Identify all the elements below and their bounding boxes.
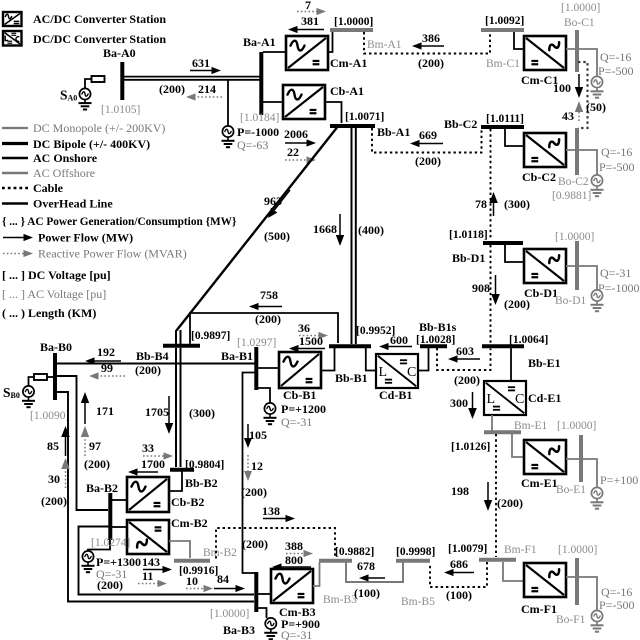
ground of Ba-A1 source — [227, 137, 229, 141]
svg-text:Cm-E1: Cm-E1 — [521, 476, 558, 490]
converter Cm-A1 — [286, 36, 328, 70]
svg-text:1668: 1668 — [313, 222, 337, 236]
svg-text:(200): (200) — [159, 82, 185, 96]
svg-text:192: 192 — [97, 345, 115, 359]
converter Cb-C2 — [524, 133, 566, 167]
bus Bo-F1 (offshore) — [575, 558, 579, 605]
wire Cb-A1 to Bb-A1 — [325, 102, 342, 123]
svg-text:Q=-16: Q=-16 — [601, 145, 632, 159]
AC line Bm-B3 to Bm-B5 (offshore) — [346, 562, 403, 582]
svg-text:908: 908 — [472, 281, 490, 295]
svg-text:Bo-C1: Bo-C1 — [564, 17, 595, 29]
AC line Ba-B0 to Ba-B2 — [57, 376, 108, 510]
svg-text:[1.0064]: [1.0064] — [509, 334, 548, 346]
svg-text:(200): (200) — [135, 363, 161, 377]
svg-text:678: 678 — [357, 559, 375, 573]
legend line DC Bipole — [2, 142, 28, 145]
svg-text:[1.0000]: [1.0000] — [334, 16, 373, 28]
wire Ba-A1 to Cm-A1 — [263, 51, 286, 53]
svg-text:7: 7 — [305, 0, 311, 12]
svg-text:( ... ) Length (KM): ( ... ) Length (KM) — [2, 306, 96, 320]
svg-text:105: 105 — [249, 428, 267, 442]
svg-text:Cb-B2: Cb-B2 — [171, 495, 204, 509]
svg-text:P=-1000: P=-1000 — [237, 125, 279, 139]
source at Ba-A1 — [222, 126, 233, 137]
svg-text:Bo-E1: Bo-E1 — [556, 484, 586, 496]
bus Ba-B2 — [108, 493, 112, 540]
cable Bm-E1 to Bm-F1 (dotted) — [495, 434, 497, 557]
bus Bm-F1 (offshore) — [479, 558, 516, 562]
svg-text:Bb-E1: Bb-E1 — [528, 356, 561, 370]
svg-text:11: 11 — [142, 569, 153, 583]
svg-text:DC Bipole (+/- 400KV): DC Bipole (+/- 400KV) — [33, 137, 150, 151]
ground at Bo-C2 source — [596, 186, 598, 190]
DC bipole diagonal Bb-B4 to Bb-A1 — [177, 128, 338, 331]
svg-text:(200): (200) — [97, 578, 123, 592]
svg-text:100: 100 — [553, 81, 571, 95]
svg-text:(200): (200) — [418, 56, 444, 70]
legend line Cable — [2, 187, 28, 190]
svg-text:669: 669 — [419, 128, 437, 142]
svg-text:L: L — [487, 392, 496, 407]
dc/dc converter Cd-E1 — [484, 381, 526, 415]
ground of SB0 — [28, 397, 30, 401]
bus Bm-A1 (offshore) — [330, 28, 373, 32]
dc/dc converter Cd-B1 — [376, 354, 418, 388]
wire AC line Ba-A0 to Ba-A1 (double) — [124, 76, 260, 78]
svg-text:[0.9882]: [0.9882] — [335, 546, 374, 558]
svg-text:Bm-E1: Bm-E1 — [514, 420, 547, 432]
cable Bm-A1 to Bm-C1 (dotted) — [364, 32, 490, 54]
bus Bb-B1s — [420, 344, 447, 348]
svg-text:[1.0028]: [1.0028] — [416, 334, 455, 346]
svg-text:600: 600 — [390, 333, 408, 347]
wire Bb-C2 to Cb-C2 — [505, 129, 524, 146]
wire Bm-E1 to Cm-E1 — [512, 434, 524, 457]
source at Bo-C2 — [591, 175, 602, 186]
svg-text:OverHead Line: OverHead Line — [33, 197, 113, 211]
bus Bm-E1 (offshore) — [484, 430, 521, 434]
svg-text:214: 214 — [198, 82, 216, 96]
svg-text:386: 386 — [422, 31, 440, 45]
svg-text:[0.9804]: [0.9804] — [185, 459, 224, 471]
svg-text:300: 300 — [450, 396, 468, 410]
wire Bm-F1 to Cm-F1 — [503, 562, 524, 581]
svg-text:Q=-31: Q=-31 — [281, 415, 312, 429]
ground at Bo-F1 source — [596, 622, 598, 626]
wire Cd-B1 to Bb-B1s — [418, 348, 429, 371]
svg-text:Cd-E1: Cd-E1 — [528, 391, 561, 405]
DC monopole wire Bb-B4 to Bb-B1 — [190, 313, 338, 344]
svg-text:[0.9998]: [0.9998] — [396, 546, 435, 558]
DC bipole Bb-B4 up to diagonal (double line) — [175, 330, 177, 344]
converter Cm-E1 — [524, 440, 566, 474]
bus Bm-C1 (offshore) — [481, 28, 524, 32]
svg-text:Bm-B2: Bm-B2 — [203, 547, 237, 559]
svg-text:DC Monopole (+/- 200KV): DC Monopole (+/- 200KV) — [33, 121, 165, 135]
svg-text:Bm-B5: Bm-B5 — [401, 596, 435, 608]
svg-text:800: 800 — [285, 553, 303, 567]
converter Cb-A1 — [283, 85, 325, 119]
svg-text:[1.0092]: [1.0092] — [485, 15, 524, 27]
svg-text:Reactive Power Flow (MVAR): Reactive Power Flow (MVAR) — [38, 247, 187, 261]
svg-text:[ ... ] AC Voltage [pu]: [ ... ] AC Voltage [pu] — [2, 287, 106, 301]
svg-text:22: 22 — [287, 145, 299, 159]
impedance of SB0 — [34, 374, 47, 380]
wire Cm-F1 to Bo-F1 and source — [566, 577, 597, 610]
svg-text:Q=-31: Q=-31 — [600, 266, 631, 280]
wire Cb-D1 to Bo-D1 and source — [566, 266, 597, 290]
converter Cb-B1 — [279, 352, 321, 388]
wire SB0 to impedance — [29, 377, 35, 386]
source at Ba-B3 — [258, 608, 267, 618]
svg-text:603: 603 — [456, 344, 474, 358]
svg-text:[1.0118]: [1.0118] — [449, 229, 488, 241]
svg-text:99: 99 — [101, 361, 113, 375]
svg-text:Bo-F1: Bo-F1 — [556, 614, 586, 626]
legend reactive power flow arrow — [3, 253, 24, 255]
wire Bm-C1 to Cm-C1 — [514, 32, 524, 49]
source at Bo-F1 — [591, 610, 602, 621]
svg-text:36: 36 — [298, 321, 310, 335]
wire Bb-B1 to Cd-B1 — [366, 348, 376, 371]
wire Ba-B2 to Cm-B2 — [112, 526, 127, 528]
bus Bo-C1 (offshore) — [575, 30, 579, 72]
svg-text:Bm-B3: Bm-B3 — [323, 594, 357, 606]
svg-text:P=-1000: P=-1000 — [598, 281, 639, 295]
bus Ba-B0 — [53, 353, 57, 400]
AC line Ba-B2 to Ba-B3 — [79, 527, 255, 595]
source SA0 — [79, 88, 90, 99]
ground of SA0 — [84, 100, 86, 104]
bus Bb-D1 — [483, 241, 523, 245]
svg-text:[1.0090]: [1.0090] — [30, 410, 69, 422]
svg-text:[1.0126]: [1.0126] — [451, 441, 490, 453]
source at Bo-E1 — [591, 487, 602, 498]
svg-text:[0.9916]: [0.9916] — [179, 565, 218, 577]
source SB0 — [23, 386, 34, 397]
svg-text:[1.0079]: [1.0079] — [448, 543, 487, 555]
wire Cb-B2 to Bb-B2 — [169, 471, 182, 491]
bus Ba-A0 — [120, 62, 124, 100]
wire Cm-E1 to Bo-E1 and source — [566, 459, 597, 487]
svg-text:10: 10 — [186, 574, 198, 588]
svg-text:1705: 1705 — [145, 405, 169, 419]
svg-text:12: 12 — [251, 459, 263, 473]
svg-text:Bb-B1s: Bb-B1s — [419, 320, 457, 334]
wire Ba-A1 to Cb-A1 — [263, 101, 283, 103]
svg-text:(50): (50) — [586, 100, 606, 114]
svg-text:30: 30 — [48, 472, 60, 486]
wire Cm-B3 to Bm-B3 — [313, 562, 320, 586]
converter Cm-B2 — [127, 520, 169, 554]
svg-text:AC Onshore: AC Onshore — [33, 151, 98, 165]
svg-text:(200): (200) — [84, 457, 110, 471]
svg-text:143: 143 — [142, 555, 160, 569]
svg-text:Cb-C2: Cb-C2 — [522, 170, 556, 184]
svg-text:[1.0274]: [1.0274] — [91, 537, 130, 549]
wire Cd-E1 to Bm-E1 — [491, 415, 493, 431]
svg-text:84: 84 — [217, 572, 229, 586]
svg-text:Bm-C1: Bm-C1 — [486, 58, 520, 70]
wire Cb-B1 to Bb-B1 — [321, 348, 335, 371]
svg-text:686: 686 — [450, 557, 468, 571]
svg-text:97: 97 — [89, 439, 101, 453]
bus Bm-B3 (offshore) — [319, 559, 352, 563]
svg-text:138: 138 — [262, 504, 280, 518]
DC bipole Bb-A1 to Bb-B1 (double line) — [351, 128, 353, 344]
svg-text:Q=-16: Q=-16 — [600, 50, 631, 64]
svg-text:Bb-B4: Bb-B4 — [136, 349, 169, 363]
svg-text:Bb-B1: Bb-B1 — [335, 371, 368, 385]
svg-text:(200): (200) — [241, 485, 267, 499]
converter Cb-B2 — [127, 477, 169, 512]
svg-text:Q=-31: Q=-31 — [281, 628, 312, 640]
svg-text:Bb-A1: Bb-A1 — [377, 125, 410, 139]
ground at Bo-C1 source — [596, 88, 598, 92]
svg-text:Power Flow (MW): Power Flow (MW) — [38, 231, 133, 245]
svg-text:1700: 1700 — [141, 457, 165, 471]
svg-text:(200): (200) — [504, 297, 530, 311]
svg-text:(200): (200) — [415, 154, 441, 168]
svg-text:P=-500: P=-500 — [598, 64, 633, 78]
legend power flow arrow — [3, 237, 24, 239]
svg-text:Bb-D1: Bb-D1 — [452, 251, 485, 265]
AC line Ba-B0 to Ba-B3 — [57, 392, 254, 602]
svg-text:78: 78 — [475, 197, 487, 211]
legend line DC Monopole — [2, 127, 28, 129]
svg-text:(200): (200) — [242, 537, 268, 551]
svg-text:(100): (100) — [354, 586, 380, 600]
wire Cm-B2 to Bm-B2 — [169, 541, 190, 558]
svg-text:(200): (200) — [497, 496, 523, 510]
legend icon DC/DC converter station — [3, 31, 22, 46]
svg-text:(200): (200) — [41, 494, 67, 508]
svg-text:Bo-C2: Bo-C2 — [558, 176, 589, 188]
svg-text:Cm-B2: Cm-B2 — [171, 516, 208, 530]
wire Bb-E1 to Cd-E1 — [510, 348, 512, 381]
ground at Bo-D1 source — [596, 301, 598, 305]
svg-text:[1.0105]: [1.0105] — [101, 104, 140, 116]
svg-text:(100): (100) — [446, 588, 472, 602]
svg-text:Bb-B2: Bb-B2 — [185, 476, 218, 490]
svg-text:[1.0000]: [1.0000] — [557, 420, 596, 432]
legend line OverHead Line — [2, 202, 28, 205]
svg-text:(400): (400) — [358, 223, 384, 237]
wire impedance to Ba-B0 — [47, 376, 53, 378]
bus Ba-A1 — [259, 52, 263, 115]
bus Bo-E1 (offshore) — [579, 435, 583, 482]
svg-text:963: 963 — [264, 194, 282, 208]
cable Bb-D1 to Bb-E1 (dotted) — [490, 245, 492, 343]
svg-text:Ba-B2: Ba-B2 — [86, 481, 118, 495]
cable Bb-B1s to Bb-E1 (dotted) — [437, 348, 491, 370]
ground of Ba-B3 source — [270, 629, 272, 633]
bus Bm-B2 (offshore) — [174, 559, 210, 563]
svg-text:{ ... } AC Power Generation/C: { ... } AC Power Generation/Consumption … — [2, 216, 237, 228]
wire Ba-B3 to Cm-B3 — [258, 593, 271, 595]
wire Ba-B2 to Cb-B2 — [112, 499, 127, 501]
legend icon AC/DC converter station — [3, 12, 22, 26]
svg-text:P=-500: P=-500 — [599, 598, 634, 612]
svg-text:[1.0111]: [1.0111] — [486, 113, 524, 125]
wire Ba-B1 to Cb-B1 — [258, 367, 279, 369]
svg-text:(500): (500) — [264, 229, 290, 243]
svg-text:L: L — [379, 365, 388, 380]
svg-text:Cb-A1: Cb-A1 — [330, 84, 364, 98]
legend line AC Onshore — [2, 157, 28, 160]
svg-text:[1.0000]: [1.0000] — [558, 544, 597, 556]
cable Bm-B2 to Bm-B3 (dotted) — [216, 528, 335, 559]
svg-text:(300): (300) — [189, 406, 215, 420]
svg-text:[1.0000]: [1.0000] — [561, 2, 600, 14]
reactive flow 43 up — [578, 112, 580, 121]
svg-text:P=+100: P=+100 — [600, 473, 638, 487]
bus Ba-B3 — [254, 572, 258, 612]
svg-text:C: C — [515, 392, 524, 407]
svg-text:(300): (300) — [504, 197, 530, 211]
wire Bb-D1 to Cb-D1 — [505, 245, 524, 262]
cable Bb-C2 to Bb-D1 (dotted) — [490, 129, 492, 240]
svg-text:P=+1200: P=+1200 — [281, 402, 326, 416]
svg-text:388: 388 — [285, 539, 303, 553]
wire SA0 to impedance — [85, 79, 92, 88]
converter Cb-D1 — [524, 249, 566, 283]
svg-text:171: 171 — [96, 404, 114, 418]
svg-text:43: 43 — [562, 109, 574, 123]
ground at Bo-E1 source — [596, 499, 598, 503]
bus Bo-C2 (offshore) — [575, 128, 579, 175]
cable Bm-F1 to Bm-B5 (dotted) — [430, 562, 487, 587]
svg-text:Ba-B1: Ba-B1 — [221, 349, 253, 363]
bus Bo-D1 (offshore) — [575, 241, 579, 290]
svg-text:Cable: Cable — [33, 181, 64, 195]
source at Ba-B1 — [257, 388, 270, 403]
svg-text:Cm-F1: Cm-F1 — [521, 602, 557, 616]
svg-text:[1.0071]: [1.0071] — [345, 111, 384, 123]
ground of Ba-B2 source — [87, 562, 89, 566]
svg-text:Cm-A1: Cm-A1 — [330, 56, 367, 70]
converter Cm-B3 — [271, 569, 313, 603]
AC line Ba-B0 to Ba-B1 — [57, 363, 255, 365]
svg-text:(200): (200) — [454, 373, 480, 387]
svg-text:2006: 2006 — [284, 127, 308, 141]
svg-text:33: 33 — [142, 441, 154, 455]
svg-text:AC Offshore: AC Offshore — [33, 166, 95, 180]
wire Cm-C1 to Bo-C1 and source — [566, 49, 597, 77]
svg-text:Cd-B1: Cd-B1 — [379, 388, 412, 402]
svg-text:Cb-B1: Cb-B1 — [283, 388, 316, 402]
cable Bo-C1 to Bo-C2 (50km) — [578, 62, 588, 128]
cable Bb-A1 to Bb-C2 (dotted) — [372, 128, 482, 153]
bus Bb-B2 — [170, 468, 194, 472]
svg-text:[0.9881]: [0.9881] — [552, 190, 591, 202]
svg-text:[1.0000]: [1.0000] — [210, 608, 249, 620]
svg-text:[ ... ] DC Voltage [pu]: [ ... ] DC Voltage [pu] — [2, 268, 111, 282]
svg-text:AC/DC Converter Station: AC/DC Converter Station — [33, 12, 166, 26]
svg-text:(200): (200) — [255, 312, 281, 326]
wire Cb-C2 to Bo-C2 and source — [566, 150, 597, 175]
wire source tap on Ba-A0 line — [227, 80, 229, 126]
svg-text:Bb-C2: Bb-C2 — [444, 117, 477, 131]
svg-text:Bm-A1: Bm-A1 — [367, 39, 402, 51]
DC bipole Bb-B4 down to Bb-B2 (double line) — [175, 348, 177, 467]
bus Bb-B1 — [329, 344, 371, 348]
svg-text:198: 198 — [451, 484, 469, 498]
svg-text:Ba-A1: Ba-A1 — [243, 35, 276, 49]
svg-text:381: 381 — [301, 14, 319, 28]
svg-text:Ba-B3: Ba-B3 — [223, 623, 255, 637]
svg-text:P=-500: P=-500 — [599, 160, 634, 174]
svg-text:Q=-16: Q=-16 — [601, 585, 632, 599]
converter Cm-C1 — [524, 36, 566, 70]
svg-text:1500: 1500 — [299, 334, 323, 348]
legend line AC Offshore — [2, 172, 28, 174]
svg-text:Q=-63: Q=-63 — [237, 138, 268, 152]
svg-text:631: 631 — [192, 56, 210, 70]
source at Ba-B2 — [88, 540, 110, 551]
svg-text:C: C — [407, 365, 416, 380]
svg-text:85: 85 — [47, 439, 59, 453]
bus Bb-E1 — [482, 344, 524, 348]
wire Ba-B1 to Ba-B3 jog — [243, 373, 256, 574]
converter Cm-F1 — [524, 563, 566, 597]
source at Bo-D1 — [591, 290, 602, 301]
svg-text:[1.0184]: [1.0184] — [240, 112, 279, 124]
bus Bb-A1 — [330, 124, 375, 128]
bus Bb-C2 — [481, 125, 524, 129]
bus Bb-B4 — [163, 344, 200, 348]
ground of Ba-B1 source — [269, 414, 271, 418]
svg-text:Bo-D1: Bo-D1 — [555, 295, 587, 307]
svg-text:Ba-A0: Ba-A0 — [103, 46, 136, 60]
svg-text:758: 758 — [260, 288, 278, 302]
bus Bm-B5 (offshore) — [396, 559, 430, 563]
svg-text:[0.9897]: [0.9897] — [191, 330, 230, 342]
bus Ba-B1 — [254, 347, 258, 390]
svg-text:DC/DC Converter Station: DC/DC Converter Station — [33, 32, 166, 46]
svg-text:Bm-F1: Bm-F1 — [504, 544, 537, 556]
svg-text:[1.0000]: [1.0000] — [555, 231, 594, 243]
wire Cm-A1 to Bm-A1 — [328, 31, 333, 52]
impedance of source SA0 — [92, 76, 105, 82]
svg-text:Ba-B0: Ba-B0 — [40, 340, 72, 354]
source at Bo-C1 — [591, 76, 602, 87]
